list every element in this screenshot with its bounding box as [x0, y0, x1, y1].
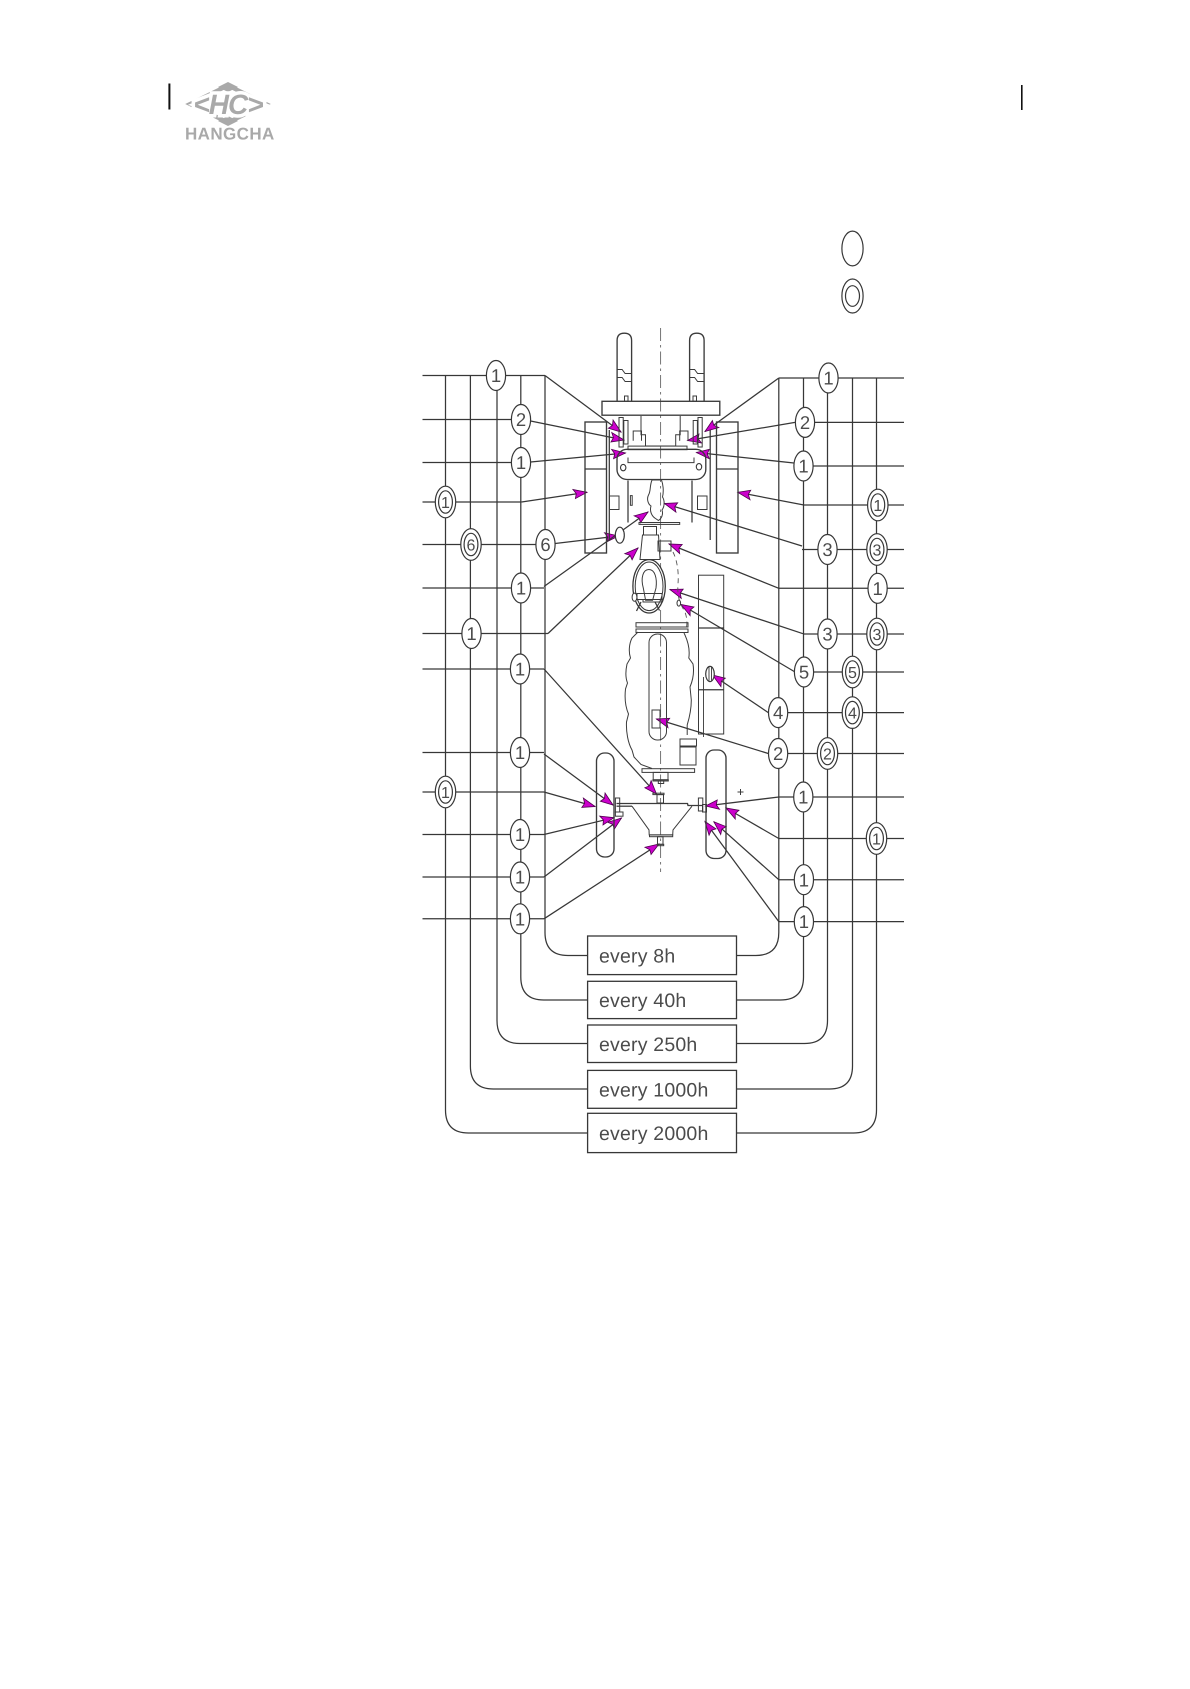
interval box every 2000h — [588, 1113, 737, 1152]
right row 12 line — [779, 838, 904, 840]
left row 3 callout 1 — [511, 448, 530, 478]
left row 2 line — [423, 419, 512, 421]
gearbox stack 2 — [653, 780, 668, 781]
svg-text:1: 1 — [441, 785, 450, 802]
diff stem — [658, 837, 664, 845]
right row 9 callout 4 — [769, 698, 788, 728]
svg-text:2: 2 — [823, 746, 832, 763]
right row 8 line — [794, 671, 904, 673]
mast right block — [698, 496, 708, 510]
left row 6 callout 1 — [511, 573, 530, 603]
axle right mount — [698, 798, 702, 811]
engine inner plate — [652, 710, 660, 728]
front wheel left tread line — [585, 468, 607, 470]
left row 1 line — [423, 375, 546, 377]
svg-text:1: 1 — [872, 831, 881, 848]
left row 5 line — [423, 544, 536, 546]
right row 12 callout 1 — [866, 823, 886, 855]
svg-text:1: 1 — [798, 787, 808, 808]
right vertical 778.8 into box — [737, 378, 779, 956]
left row 3 line — [423, 462, 512, 464]
carriage left bracket b — [624, 421, 628, 445]
interval box every 8h — [588, 936, 737, 975]
right row 8 callout 5 — [794, 657, 813, 687]
engine bottom bar — [642, 769, 695, 773]
legend double ellipse inner — [846, 286, 860, 307]
hose small pair — [630, 496, 632, 506]
fork latch left — [625, 396, 629, 401]
svg-text:1: 1 — [873, 498, 882, 515]
left row 4 callout 1 — [435, 486, 455, 518]
svg-text:2: 2 — [773, 743, 783, 764]
rear wheel left — [597, 753, 615, 857]
front wheel right tread line — [717, 468, 739, 470]
oil plug circle — [706, 666, 715, 681]
left row 9 leader arrow — [544, 754, 613, 805]
mast inner rail left — [627, 481, 629, 523]
right row 7 leader arrow — [670, 590, 803, 634]
left row 13 leader arrow — [544, 844, 659, 919]
steering column neck — [644, 527, 657, 536]
right row 3 line — [814, 465, 905, 467]
legend double ellipse outer — [842, 279, 863, 313]
kingpin bar — [653, 793, 664, 794]
right vertical 803.5 into box — [737, 378, 804, 1000]
right plate div 1 — [699, 627, 724, 629]
carriage top plate — [602, 401, 720, 415]
legend single ellipse — [842, 231, 863, 266]
axle left tick — [615, 812, 623, 816]
left fork — [617, 333, 632, 401]
steering right knob — [677, 600, 681, 606]
right row 6 leader arrow — [669, 544, 779, 588]
front wheel left — [585, 422, 607, 553]
left row 7 line — [423, 633, 549, 635]
left row 13 line — [423, 918, 545, 920]
left row 8 callout 1 — [510, 654, 529, 684]
right vertical 876.5 into box — [737, 378, 877, 1133]
left row 1 callout 1 — [486, 361, 505, 391]
engine left outline — [625, 632, 652, 769]
right row 4 callout 1 — [868, 489, 888, 521]
svg-text:1: 1 — [515, 742, 525, 763]
header tick right — [1021, 85, 1023, 110]
left row 11 callout 1 — [510, 820, 529, 850]
cowl band 2 — [636, 629, 688, 633]
right row 7 callout 3 — [818, 619, 837, 649]
right row 4 line — [804, 504, 904, 506]
left row 10 callout 1 — [435, 776, 455, 808]
svg-text:1: 1 — [798, 456, 808, 477]
right row 14 leader arrow — [705, 822, 779, 922]
steering left knob — [632, 593, 637, 601]
right row 3 callout 1 — [794, 451, 813, 481]
right row 13 line — [779, 879, 904, 881]
engine head cover — [649, 634, 667, 740]
left vertical 545.0 into box — [545, 376, 588, 956]
svg-text:1: 1 — [515, 908, 525, 929]
svg-text:every 2000h: every 2000h — [599, 1123, 709, 1145]
left row 5 leader arrow — [555, 536, 618, 544]
left fork break lines — [617, 370, 632, 374]
left row 13 callout 1 — [510, 904, 529, 934]
carriage right hole — [696, 464, 701, 470]
right row 10 line — [768, 753, 904, 755]
diff housing — [632, 806, 692, 835]
svg-text:1: 1 — [491, 365, 501, 386]
axle right box — [703, 805, 707, 813]
svg-text:1: 1 — [515, 867, 525, 888]
left row 11 leader arrow — [544, 818, 614, 835]
carriage lower crossbar — [628, 446, 687, 450]
mast rail right — [709, 430, 711, 540]
right row 11 callout 1 — [794, 782, 813, 812]
svg-text:1: 1 — [516, 452, 526, 473]
svg-text:<HC>: <HC> — [193, 89, 263, 120]
interval box every 1000h — [588, 1070, 737, 1108]
svg-text:1: 1 — [823, 368, 833, 389]
right plate column — [699, 575, 724, 734]
interval box every 250h — [588, 1025, 737, 1063]
svg-text:1: 1 — [872, 578, 882, 599]
left row 12 leader arrow — [544, 818, 622, 877]
carriage left bracket a — [619, 418, 623, 448]
right row 13 callout 1 — [794, 865, 813, 895]
left row 12 line — [423, 876, 545, 878]
right row 11 line — [779, 796, 904, 798]
battery box 1 — [680, 739, 697, 746]
carriage right bracket a — [698, 418, 702, 448]
left row 12 callout 1 — [510, 862, 529, 892]
svg-text:1: 1 — [441, 495, 450, 512]
carriage center block — [641, 416, 680, 446]
svg-text:2: 2 — [516, 409, 526, 430]
left row 1 leader arrow — [545, 376, 621, 433]
left vertical 445.5 into box — [446, 376, 588, 1134]
left row 6 leader arrow — [544, 512, 648, 587]
right row 1 line — [779, 377, 904, 379]
left row 3 leader arrow — [531, 453, 626, 462]
forklift drawing — [585, 328, 744, 872]
left row 8 line — [423, 668, 545, 670]
right row 1 leader arrow — [705, 378, 779, 432]
svg-text:1: 1 — [799, 911, 809, 932]
steering keyhole — [642, 570, 656, 601]
right row 14 line — [779, 921, 904, 923]
right row 8 leader arrow — [681, 605, 794, 672]
engine right outline — [684, 633, 694, 735]
left row 7 leader arrow — [548, 548, 638, 634]
axle beam bottom left — [617, 805, 633, 807]
svg-text:6: 6 — [540, 534, 550, 555]
svg-text:3: 3 — [873, 627, 882, 644]
svg-text:every 8h: every 8h — [599, 945, 675, 967]
tilt cylinder circle — [615, 527, 624, 543]
right row 7 callout 3 — [867, 618, 887, 650]
steering column body — [640, 535, 660, 560]
svg-text:1: 1 — [515, 659, 525, 680]
centerline — [660, 328, 662, 872]
carriage left hole — [621, 464, 626, 470]
svg-text:2: 2 — [800, 412, 810, 433]
carriage bottom inner lip — [628, 458, 694, 463]
carriage right step — [680, 431, 688, 441]
svg-text:4: 4 — [848, 705, 857, 722]
left row 5 callout 6 — [536, 530, 555, 560]
gearbox stack 3 — [658, 781, 663, 784]
svg-text:3: 3 — [822, 539, 832, 560]
gearbox stack 1 — [653, 772, 668, 779]
left row 10 line — [423, 791, 545, 793]
axle left mount — [615, 798, 619, 812]
right row 9 callout 4 — [842, 697, 862, 729]
left row 4 leader arrow — [522, 492, 587, 502]
svg-text:4: 4 — [773, 702, 783, 723]
right row 12 leader arrow — [726, 808, 779, 839]
svg-text:every 250h: every 250h — [599, 1034, 697, 1056]
axle beam top — [617, 804, 703, 806]
left row 6 line — [423, 587, 545, 589]
diff bottom bar — [650, 835, 673, 837]
right row 10 callout 2 — [817, 738, 837, 770]
left row 4 line — [423, 501, 522, 503]
right row 6 line — [779, 587, 904, 589]
svg-text:HANGCHA: HANGCHA — [185, 125, 275, 144]
right row 10 leader arrow — [657, 719, 769, 754]
right row 14 callout 1 — [794, 907, 813, 937]
priority valve box — [658, 541, 671, 551]
mast inner rail right — [691, 481, 693, 523]
left row 8 leader arrow — [544, 669, 657, 794]
axle cross tick — [738, 789, 744, 795]
lift cylinder blob — [648, 480, 665, 521]
mast left block — [610, 496, 620, 510]
svg-text:5: 5 — [799, 662, 809, 683]
left vertical 520.8 into box — [521, 376, 588, 1001]
right row 5 callout 3 — [867, 534, 887, 566]
kingpin — [657, 795, 664, 803]
cowl band 1 — [636, 623, 688, 627]
svg-text:6: 6 — [467, 537, 476, 554]
rear wheel right — [706, 750, 726, 859]
hose dashed — [673, 552, 687, 630]
right row 9 leader arrow — [713, 675, 769, 713]
Hangcha HC diamond logo — [190, 82, 266, 126]
steering lower bar — [643, 600, 662, 603]
svg-text:1: 1 — [799, 869, 809, 890]
right fork break lines — [690, 370, 705, 374]
left row 9 line — [423, 752, 545, 754]
right row 2 leader arrow — [688, 422, 796, 440]
svg-text:5: 5 — [848, 665, 857, 682]
right row 13 leader arrow — [714, 822, 779, 880]
right vertical 827.5 into box — [737, 392, 828, 1044]
front wheel right — [717, 422, 739, 553]
wheel spoke right — [655, 602, 660, 611]
left row 7 callout 1 — [462, 619, 481, 649]
steering wheel outer — [633, 560, 665, 613]
diff stem tick — [657, 844, 663, 845]
right row 3 leader arrow — [697, 453, 794, 464]
right row 4 leader arrow — [738, 492, 804, 505]
mast rail left — [608, 430, 610, 540]
right plate div 2 — [699, 689, 724, 691]
right row 9 line — [768, 712, 904, 714]
header tick left — [168, 84, 170, 110]
left row 9 callout 1 — [510, 738, 529, 768]
right row 8 callout 5 — [842, 656, 862, 688]
svg-text:1: 1 — [466, 623, 476, 644]
left row 2 callout 2 — [511, 405, 530, 435]
right row 7 line — [803, 633, 904, 635]
left vertical 470.4 into box — [470, 376, 587, 1090]
battery box 2 — [680, 747, 696, 765]
left row 10 leader arrow — [544, 792, 595, 807]
svg-text:3: 3 — [822, 624, 832, 645]
steering wheel inner — [635, 562, 663, 611]
wheel spoke left — [637, 602, 642, 611]
right fork — [690, 333, 705, 401]
right row 2 line — [815, 421, 904, 423]
steering crossbar — [637, 594, 662, 600]
right vertical 852.5 into box — [737, 378, 853, 1089]
right row 1 callout 1 — [819, 363, 838, 393]
left vertical 497.0 into box — [497, 390, 588, 1044]
right row 11 leader arrow — [706, 797, 779, 806]
interval box every 40h — [588, 981, 737, 1018]
right row 5 line — [802, 549, 904, 551]
carriage bottom pan — [617, 449, 706, 479]
carriage left step — [633, 431, 641, 441]
right row 5 leader arrow — [665, 504, 803, 547]
right row 6 callout 1 — [868, 573, 887, 603]
mast bottom bar — [639, 523, 680, 525]
svg-text:1: 1 — [515, 824, 525, 845]
oil plug hatch — [708, 667, 710, 681]
left row 2 leader arrow — [531, 421, 624, 440]
right plate inner vline — [703, 677, 705, 737]
svg-text:3: 3 — [873, 542, 882, 559]
right row 5 callout 3 — [818, 535, 837, 565]
left row 5 callout 6 — [461, 529, 481, 561]
left row 11 line — [423, 834, 545, 836]
right row 10 callout 2 — [769, 739, 788, 769]
svg-text:every 40h: every 40h — [599, 990, 686, 1012]
carriage right bracket b — [693, 421, 697, 445]
svg-text:1: 1 — [516, 578, 526, 599]
right row 2 callout 2 — [795, 407, 814, 437]
svg-text:every 1000h: every 1000h — [599, 1079, 709, 1101]
fork latch right — [693, 396, 697, 401]
